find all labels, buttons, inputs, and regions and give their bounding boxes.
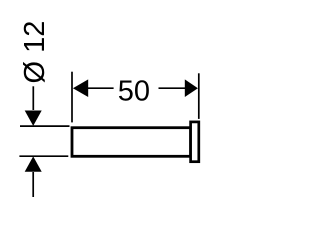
extension line left (50 dim) <box>71 72 73 123</box>
dimension line lower (diameter dim) <box>32 172 34 197</box>
extension line right (50 dim) <box>198 73 200 119</box>
hook body (cylinder side view) <box>72 128 191 157</box>
dimension line upper (diameter dim) <box>32 86 34 110</box>
flange (wall plate) <box>191 122 199 162</box>
svg-text:Ø 12: Ø 12 <box>19 21 51 84</box>
svg-text:50: 50 <box>118 75 150 107</box>
extension line bottom (diameter dim) <box>19 155 68 157</box>
dimension line 50 right segment <box>159 87 189 89</box>
extension line top (diameter dim) <box>20 125 70 127</box>
arrow left (50 dim) <box>73 79 88 97</box>
dimension line 50 left segment <box>82 87 114 89</box>
arrow right (50 dim) <box>185 79 198 97</box>
arrow up (diameter dim) <box>25 156 42 171</box>
arrow down (diameter dim) <box>25 111 42 126</box>
